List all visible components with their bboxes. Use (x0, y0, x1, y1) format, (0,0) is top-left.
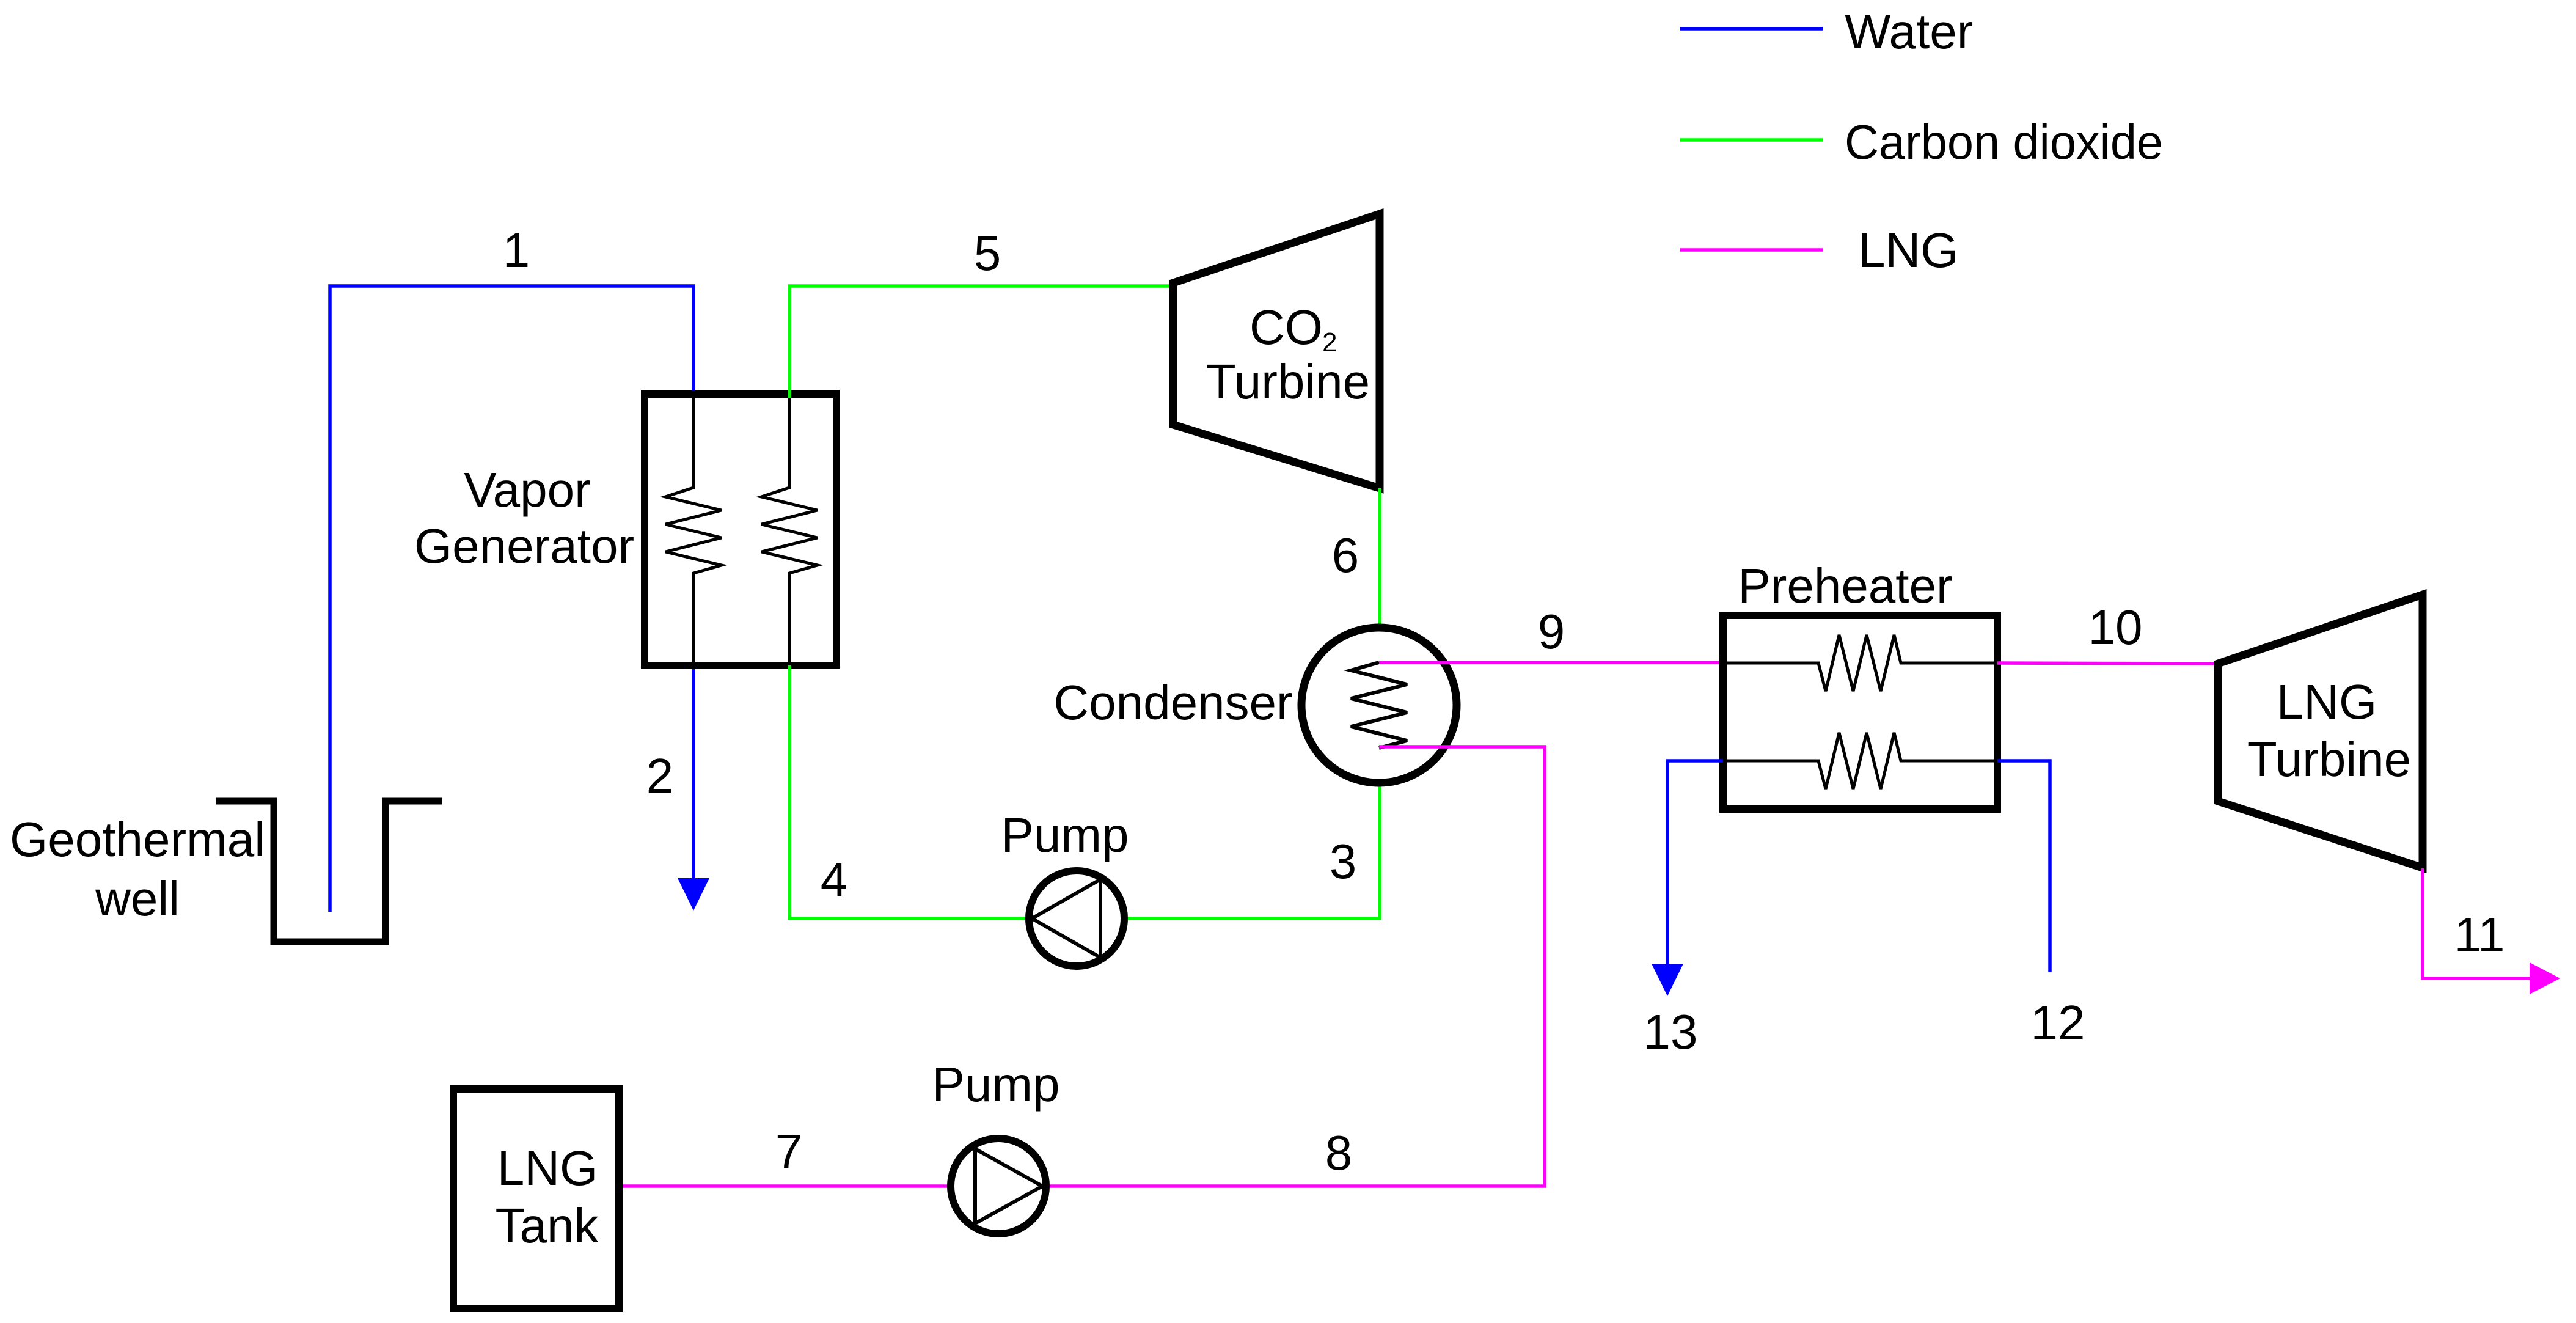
arrowhead wire 2 (678, 878, 709, 911)
svg-text:8: 8 (1325, 1126, 1353, 1180)
svg-text:9: 9 (1538, 604, 1565, 659)
label LNG Tank (496, 1141, 599, 1253)
wire 4 (CO2 pump to vapor generator) (789, 665, 1025, 918)
label Geothermal well (10, 812, 265, 926)
condenser coil (1351, 662, 1407, 748)
CO2 pump triangle (1032, 879, 1100, 958)
legend water line (1680, 27, 1823, 31)
preheater box (1723, 615, 1997, 809)
svg-text:Tank: Tank (496, 1198, 599, 1253)
arrowhead wire 11 (2530, 962, 2560, 994)
wire 1 (water: geothermal well to vapor generator) (330, 286, 693, 912)
svg-text:6: 6 (1332, 528, 1359, 582)
svg-text:7: 7 (775, 1124, 803, 1179)
svg-text:Turbine: Turbine (2247, 732, 2411, 786)
arrowhead wire 13 (1652, 964, 1683, 996)
svg-text:Vapor: Vapor (464, 463, 591, 517)
LNG turbine (2218, 595, 2423, 868)
condenser circle (1301, 628, 1457, 783)
svg-text:2: 2 (1322, 328, 1337, 357)
wire 8 (LNG pump to condenser coil) (1050, 747, 1545, 1186)
label Vapor Generator (414, 463, 634, 573)
label CO2 Turbine (1206, 300, 1370, 409)
svg-text:well: well (95, 871, 180, 926)
vapor generator coil 2 (761, 398, 818, 662)
svg-text:Generator: Generator (414, 519, 634, 573)
svg-text:Water: Water (1845, 4, 1973, 59)
wire 13 (water out of preheater) (1667, 761, 1723, 966)
svg-text:11: 11 (2454, 907, 2505, 962)
svg-text:3: 3 (1330, 834, 1357, 889)
svg-text:2: 2 (646, 749, 674, 803)
label LNG Turbine (2247, 675, 2411, 786)
svg-text:Pump: Pump (1001, 808, 1129, 862)
vapor generator coil 1 (665, 398, 722, 662)
geothermal well symbol (216, 801, 442, 942)
wire 2 (water out of vapor generator) (692, 665, 695, 880)
wire 3 (condenser to CO2 pump) (1128, 786, 1380, 918)
preheater coil 2 (water side) (1723, 733, 1997, 789)
svg-text:LNG: LNG (1858, 223, 1959, 277)
vapor generator box (645, 394, 836, 665)
svg-text:LNG: LNG (497, 1141, 598, 1195)
LNG pump triangle (975, 1149, 1042, 1223)
svg-text:5: 5 (974, 226, 1001, 280)
svg-text:Turbine: Turbine (1206, 354, 1370, 409)
svg-text:4: 4 (821, 852, 848, 907)
wire 9 (LNG: condenser to preheater) (1379, 661, 1723, 664)
svg-text:10: 10 (2088, 600, 2143, 654)
svg-text:Pump: Pump (932, 1057, 1060, 1112)
CO2 turbine (1173, 214, 1380, 488)
svg-text:12: 12 (2031, 995, 2085, 1050)
LNG pump circle (951, 1138, 1046, 1234)
wire 6 (CO2 turbine to condenser) (1378, 488, 1381, 625)
svg-text:Preheater: Preheater (1738, 559, 1952, 613)
svg-text:1: 1 (503, 223, 530, 277)
svg-text:CO: CO (1250, 300, 1323, 354)
wire 5 (CO2: vapor generator to CO2 turbine) (789, 286, 1173, 398)
CO2 pump circle (1029, 871, 1124, 966)
wire 7 (LNG tank to LNG pump) (623, 1184, 948, 1188)
wire 12 (water into preheater) (1997, 761, 2050, 972)
svg-text:Carbon dioxide: Carbon dioxide (1845, 115, 2163, 169)
svg-text:LNG: LNG (2277, 675, 2377, 729)
svg-text:Condenser: Condenser (1053, 675, 1292, 730)
preheater coil 1 (LNG side) (1723, 635, 1997, 691)
legend LNG line (1680, 248, 1823, 252)
wire 11 (LNG turbine outlet) (2423, 868, 2532, 978)
wire 10 (preheater to LNG turbine) (1997, 663, 2218, 664)
svg-text:13: 13 (1644, 1005, 1698, 1059)
LNG tank box (453, 1089, 619, 1308)
legend carbon dioxide line (1680, 138, 1823, 142)
svg-text:Geothermal: Geothermal (10, 812, 265, 867)
